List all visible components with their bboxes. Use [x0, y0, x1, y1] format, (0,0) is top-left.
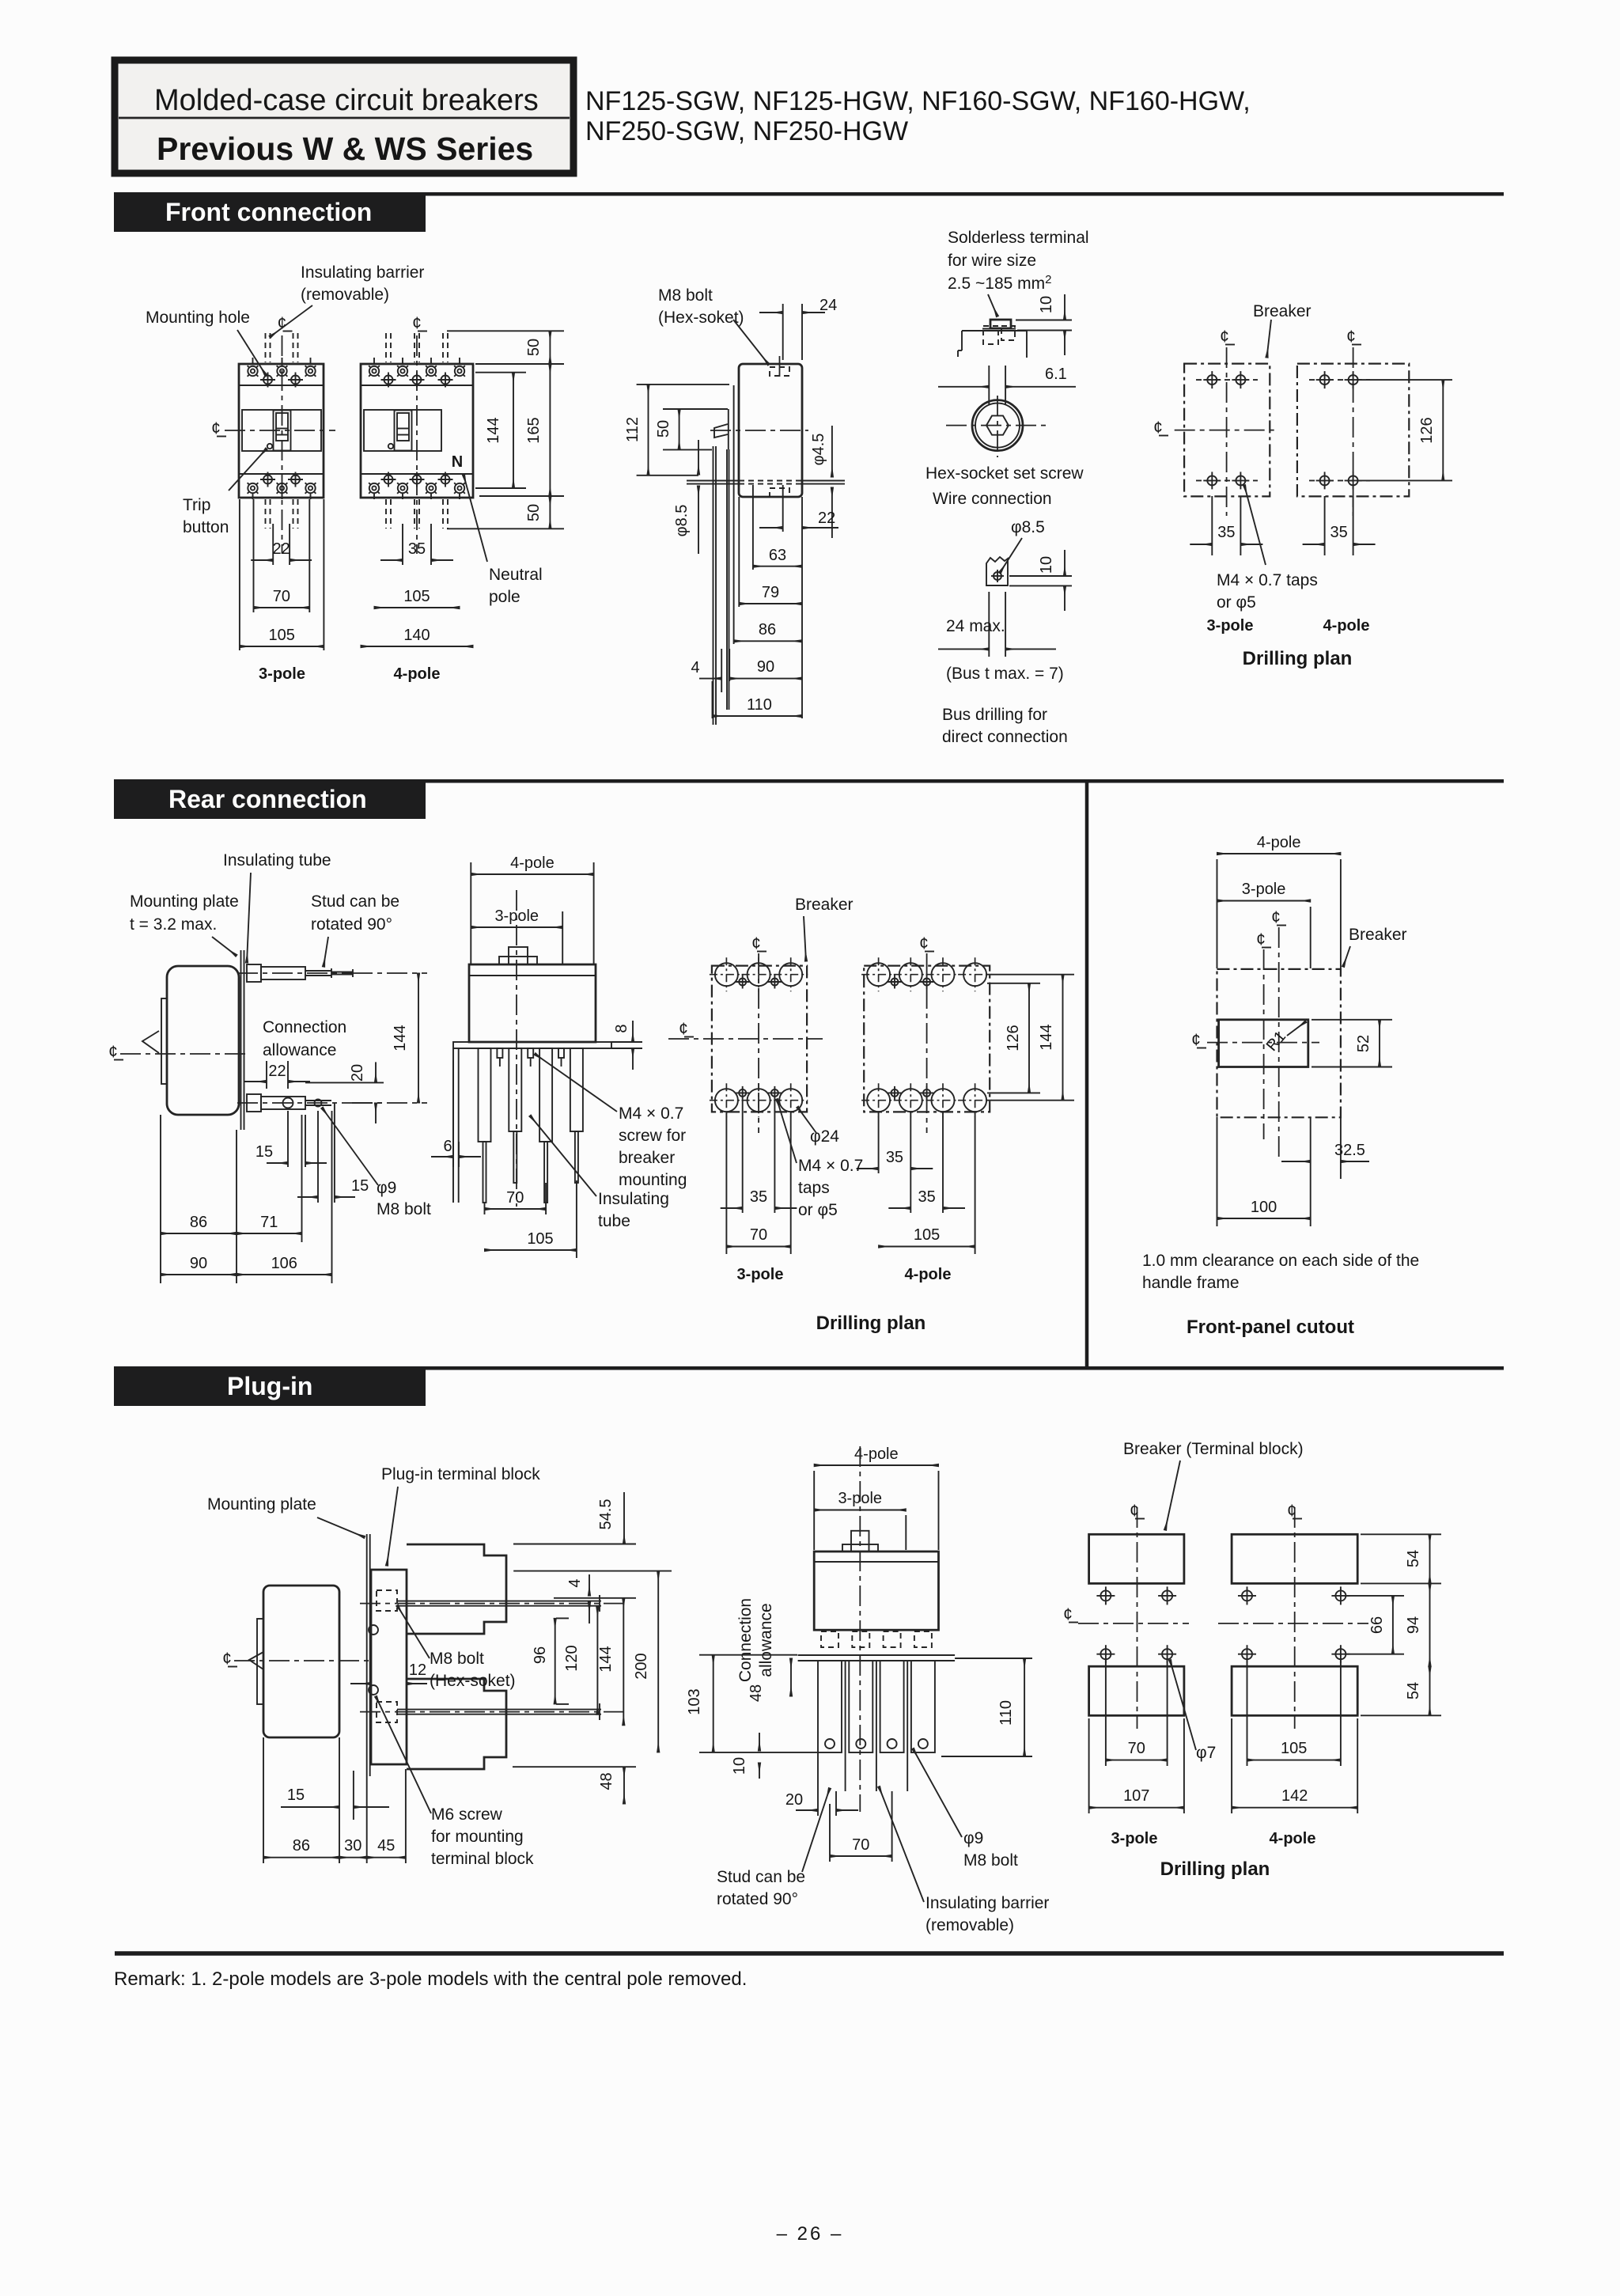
- svg-text:63: 63: [769, 547, 786, 564]
- svg-text:12: 12: [409, 1661, 426, 1679]
- svg-text:rotated 90°: rotated 90°: [311, 915, 392, 934]
- svg-text:φ4.5: φ4.5: [810, 434, 827, 466]
- svg-text:tube: tube: [598, 1212, 630, 1230]
- svg-text:¢: ¢: [211, 419, 221, 438]
- svg-text:165: 165: [525, 417, 543, 443]
- svg-text:52: 52: [1355, 1035, 1372, 1052]
- svg-text:Drilling plan: Drilling plan: [816, 1313, 926, 1334]
- svg-text:54: 54: [1405, 1682, 1422, 1699]
- svg-text:Trip: Trip: [183, 496, 210, 514]
- svg-text:35: 35: [1217, 524, 1235, 541]
- svg-text:¢: ¢: [1153, 419, 1163, 437]
- svg-text:4-pole: 4-pole: [1257, 834, 1301, 851]
- svg-text:(Bus t max. = 7): (Bus t max. = 7): [946, 665, 1064, 683]
- svg-text:Plug-in terminal block: Plug-in terminal block: [381, 1465, 540, 1483]
- svg-text:¢: ¢: [1130, 1502, 1139, 1520]
- svg-text:Previous W & WS Series: Previous W & WS Series: [157, 131, 533, 167]
- svg-text:button: button: [183, 518, 229, 536]
- svg-text:200: 200: [633, 1653, 650, 1679]
- svg-text:3-pole: 3-pole: [1111, 1830, 1158, 1847]
- svg-text:10: 10: [1038, 296, 1055, 313]
- svg-text:Insulating barrier: Insulating barrier: [925, 1894, 1049, 1912]
- svg-text:¢: ¢: [1191, 1031, 1201, 1049]
- svg-text:Breaker: Breaker: [1253, 302, 1312, 320]
- svg-text:¢: ¢: [1220, 328, 1229, 346]
- svg-text:4-pole: 4-pole: [394, 665, 441, 683]
- svg-text:allowance: allowance: [263, 1041, 336, 1059]
- svg-text:¢: ¢: [751, 934, 761, 953]
- svg-text:Bus drilling for: Bus drilling for: [942, 706, 1047, 724]
- svg-text:54.5: 54.5: [597, 1499, 615, 1530]
- svg-text:3-pole: 3-pole: [259, 665, 305, 683]
- svg-text:Mounting plate: Mounting plate: [130, 892, 239, 911]
- svg-text:Solderless terminal: Solderless terminal: [948, 229, 1089, 247]
- svg-text:106: 106: [271, 1255, 297, 1272]
- svg-text:4-pole: 4-pole: [1323, 617, 1370, 635]
- svg-text:35: 35: [408, 540, 426, 558]
- svg-text:35: 35: [750, 1188, 767, 1206]
- svg-text:4-pole: 4-pole: [510, 854, 555, 872]
- svg-text:for wire size: for wire size: [948, 252, 1036, 270]
- svg-text:Insulating barrier: Insulating barrier: [301, 263, 424, 282]
- svg-text:8: 8: [613, 1024, 630, 1032]
- svg-text:φ9: φ9: [963, 1829, 983, 1847]
- svg-text:70: 70: [506, 1189, 524, 1207]
- svg-text:allowance: allowance: [757, 1603, 775, 1677]
- svg-text:2.5 ~185 mm2: 2.5 ~185 mm2: [948, 273, 1052, 293]
- svg-text:140: 140: [403, 627, 430, 644]
- svg-text:120: 120: [563, 1645, 581, 1671]
- svg-text:¢: ¢: [679, 1020, 688, 1038]
- svg-text:22: 22: [818, 510, 835, 527]
- svg-text:Drilling plan: Drilling plan: [1243, 648, 1353, 669]
- svg-text:105: 105: [268, 627, 294, 644]
- svg-text:4-pole: 4-pole: [854, 1445, 899, 1463]
- svg-text:4: 4: [691, 659, 699, 676]
- svg-text:Breaker: Breaker: [795, 896, 854, 914]
- svg-text:105: 105: [527, 1230, 553, 1248]
- svg-text:79: 79: [762, 584, 779, 601]
- svg-text:(Hex-soket): (Hex-soket): [658, 309, 744, 327]
- svg-text:Molded-case circuit breakers: Molded-case circuit breakers: [154, 84, 539, 117]
- svg-text:70: 70: [852, 1836, 869, 1854]
- svg-text:NF250-SGW, NF250-HGW: NF250-SGW, NF250-HGW: [585, 116, 908, 146]
- svg-text:M4 × 0.7 taps: M4 × 0.7 taps: [1217, 571, 1318, 589]
- svg-text:66: 66: [1368, 1616, 1386, 1634]
- svg-text:86: 86: [759, 621, 776, 638]
- svg-text:54: 54: [1405, 1550, 1422, 1567]
- svg-text:15: 15: [351, 1177, 369, 1195]
- svg-text:(removable): (removable): [925, 1916, 1014, 1934]
- svg-text:70: 70: [750, 1226, 767, 1244]
- svg-text:15: 15: [255, 1143, 273, 1161]
- svg-text:22: 22: [273, 540, 290, 558]
- svg-text:86: 86: [190, 1214, 207, 1231]
- svg-text:35: 35: [1330, 524, 1347, 541]
- svg-text:M4 × 0.7: M4 × 0.7: [619, 1104, 683, 1123]
- svg-text:or φ5: or φ5: [1217, 593, 1256, 612]
- svg-text:direct connection: direct connection: [942, 728, 1068, 746]
- svg-text:pole: pole: [489, 588, 520, 606]
- svg-text:48: 48: [598, 1772, 615, 1790]
- svg-text:(Hex-soket): (Hex-soket): [430, 1672, 516, 1690]
- svg-text:R1: R1: [1263, 1028, 1289, 1055]
- svg-text:103: 103: [686, 1688, 703, 1714]
- svg-text:22: 22: [268, 1063, 286, 1080]
- svg-text:Plug-in: Plug-in: [227, 1372, 312, 1400]
- svg-text:screw for: screw for: [619, 1127, 686, 1145]
- svg-text:6.1: 6.1: [1045, 366, 1067, 383]
- svg-text:Mounting hole: Mounting hole: [146, 309, 250, 327]
- svg-text:70: 70: [1128, 1740, 1145, 1757]
- svg-text:Front connection: Front connection: [165, 198, 372, 226]
- svg-text:Breaker: Breaker: [1349, 926, 1407, 944]
- svg-text:30: 30: [344, 1837, 361, 1855]
- svg-text:70: 70: [273, 588, 290, 605]
- svg-text:mounting: mounting: [619, 1171, 687, 1189]
- svg-text:– 26 –: – 26 –: [777, 2223, 844, 2245]
- svg-text:or φ5: or φ5: [798, 1201, 838, 1219]
- svg-text:6: 6: [443, 1138, 452, 1155]
- svg-text:t = 3.2 max.: t = 3.2 max.: [130, 915, 217, 934]
- svg-text:Remark: 1. 2-pole models are 3: Remark: 1. 2-pole models are 3-pole mode…: [114, 1968, 747, 1990]
- svg-text:3-pole: 3-pole: [737, 1266, 784, 1283]
- svg-text:Connection: Connection: [736, 1598, 755, 1682]
- svg-text:Wire connection: Wire connection: [933, 490, 1052, 508]
- svg-text:126: 126: [1005, 1025, 1022, 1051]
- svg-text:¢: ¢: [1256, 930, 1266, 949]
- svg-text:terminal block: terminal block: [431, 1850, 534, 1868]
- svg-text:M6 screw: M6 screw: [431, 1805, 503, 1824]
- svg-text:¢: ¢: [222, 1650, 232, 1668]
- svg-text:Breaker (Terminal block): Breaker (Terminal block): [1123, 1440, 1304, 1458]
- svg-text:Front-panel cutout: Front-panel cutout: [1187, 1317, 1354, 1338]
- svg-text:handle frame: handle frame: [1142, 1274, 1240, 1292]
- svg-text:105: 105: [403, 588, 430, 605]
- svg-text:144: 144: [392, 1025, 409, 1051]
- svg-text:10: 10: [731, 1757, 748, 1775]
- svg-text:M8 bolt: M8 bolt: [377, 1200, 431, 1218]
- svg-text:48: 48: [748, 1684, 765, 1702]
- svg-text:110: 110: [997, 1700, 1015, 1726]
- svg-text:Rear connection: Rear connection: [168, 785, 367, 813]
- svg-text:Insulating: Insulating: [598, 1190, 669, 1208]
- svg-text:M8 bolt: M8 bolt: [430, 1650, 484, 1668]
- svg-text:3-pole: 3-pole: [1242, 881, 1286, 898]
- svg-text:(removable): (removable): [301, 286, 389, 304]
- svg-text:24 max.: 24 max.: [946, 617, 1005, 635]
- svg-text:10: 10: [1038, 556, 1055, 574]
- svg-text:90: 90: [757, 658, 774, 676]
- svg-text:35: 35: [886, 1149, 903, 1166]
- svg-text:96: 96: [532, 1646, 549, 1664]
- svg-text:24: 24: [819, 297, 837, 314]
- svg-text:Drilling plan: Drilling plan: [1160, 1858, 1270, 1880]
- svg-text:Insulating tube: Insulating tube: [223, 851, 331, 870]
- svg-text:M4 × 0.7: M4 × 0.7: [798, 1157, 863, 1175]
- svg-text:Connection: Connection: [263, 1018, 346, 1036]
- svg-text:Stud can be: Stud can be: [311, 892, 399, 911]
- svg-text:for mounting: for mounting: [431, 1828, 524, 1846]
- svg-text:71: 71: [260, 1214, 278, 1231]
- svg-text:4-pole: 4-pole: [905, 1266, 952, 1283]
- svg-text:φ8.5: φ8.5: [673, 505, 691, 537]
- svg-text:1.0 mm clearance on each side: 1.0 mm clearance on each side of the: [1142, 1252, 1419, 1270]
- svg-text:¢: ¢: [919, 934, 929, 953]
- svg-text:Stud can be: Stud can be: [717, 1868, 805, 1886]
- svg-text:¢: ¢: [1346, 328, 1356, 346]
- svg-text:φ8.5: φ8.5: [1011, 518, 1045, 536]
- svg-text:φ9: φ9: [377, 1179, 396, 1197]
- svg-text:M8 bolt: M8 bolt: [963, 1851, 1018, 1870]
- svg-text:105: 105: [914, 1226, 940, 1244]
- svg-text:4: 4: [566, 1578, 584, 1587]
- svg-text:Mounting plate: Mounting plate: [207, 1495, 316, 1514]
- svg-text:20: 20: [785, 1791, 803, 1809]
- svg-text:126: 126: [1418, 417, 1436, 443]
- svg-text:32.5: 32.5: [1334, 1142, 1365, 1159]
- svg-text:¢: ¢: [1271, 908, 1281, 926]
- svg-text:100: 100: [1251, 1199, 1277, 1216]
- svg-text:15: 15: [287, 1786, 305, 1804]
- svg-text:20: 20: [349, 1064, 366, 1082]
- svg-text:105: 105: [1281, 1740, 1307, 1757]
- svg-text:φ7: φ7: [1196, 1744, 1216, 1762]
- svg-text:taps: taps: [798, 1179, 830, 1197]
- svg-text:N: N: [452, 453, 463, 471]
- svg-text:50: 50: [525, 504, 543, 521]
- svg-text:142: 142: [1281, 1787, 1308, 1805]
- svg-text:¢: ¢: [1063, 1605, 1073, 1623]
- svg-text:50: 50: [655, 420, 672, 438]
- svg-text:94: 94: [1405, 1616, 1422, 1634]
- svg-text:¢: ¢: [1287, 1502, 1296, 1520]
- svg-text:112: 112: [624, 417, 642, 442]
- svg-text:¢: ¢: [412, 314, 422, 332]
- svg-text:breaker: breaker: [619, 1149, 675, 1167]
- svg-text:Neutral: Neutral: [489, 566, 543, 584]
- svg-text:rotated 90°: rotated 90°: [717, 1890, 798, 1908]
- svg-text:144: 144: [485, 417, 502, 443]
- svg-text:NF125-SGW, NF125-HGW, NF160-SG: NF125-SGW, NF125-HGW, NF160-SGW, NF160-H…: [585, 86, 1251, 116]
- svg-text:35: 35: [918, 1188, 936, 1206]
- svg-text:110: 110: [747, 696, 772, 714]
- svg-text:144: 144: [1038, 1024, 1055, 1050]
- svg-text:M8 bolt: M8 bolt: [658, 286, 713, 305]
- svg-text:3-pole: 3-pole: [1207, 617, 1254, 635]
- svg-text:¢: ¢: [108, 1043, 118, 1061]
- svg-text:45: 45: [377, 1837, 395, 1855]
- svg-text:4-pole: 4-pole: [1270, 1830, 1316, 1847]
- svg-text:107: 107: [1123, 1787, 1149, 1805]
- svg-text:144: 144: [597, 1646, 615, 1672]
- svg-text:86: 86: [293, 1837, 310, 1855]
- svg-text:Hex-socket set screw: Hex-socket set screw: [925, 464, 1084, 483]
- svg-text:90: 90: [190, 1255, 207, 1272]
- svg-text:50: 50: [525, 339, 543, 356]
